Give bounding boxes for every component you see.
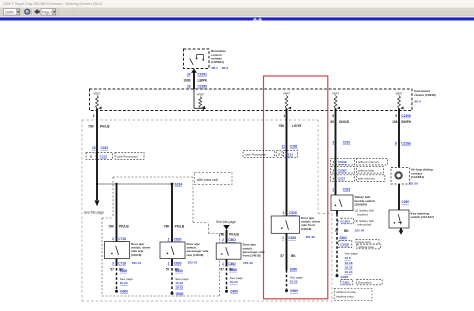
svg-text:G900: G900 [176, 292, 184, 296]
svg-text:2: 2 [168, 237, 170, 241]
svg-text:See page: See page [290, 275, 304, 279]
svg-text:VBAT: VBAT [93, 92, 101, 96]
svg-text:6: 6 [332, 114, 334, 118]
svg-text:1: 1 [282, 236, 284, 240]
svg-text:C820: C820 [174, 261, 182, 265]
svg-text:C218a: C218a [401, 141, 411, 145]
svg-text:S420: S420 [230, 268, 238, 272]
svg-text:C281: C281 [101, 146, 109, 150]
svg-text:780: 780 [108, 225, 114, 229]
svg-text:1: 1 [168, 261, 170, 265]
svg-text:151-40: 151-40 [305, 235, 315, 239]
svg-text:See this page: See this page [84, 211, 104, 215]
svg-text:57: 57 [110, 267, 114, 271]
svg-text:PK/LB: PK/LB [229, 232, 239, 236]
svg-text:without heat: without heat [358, 168, 374, 172]
svg-text:3: 3 [283, 211, 285, 215]
svg-text:C281: C281 [290, 145, 298, 149]
svg-text:unbuckled: unbuckled [357, 223, 371, 227]
svg-text:S300: S300 [120, 269, 128, 273]
svg-text:DN/LB: DN/LB [339, 120, 349, 124]
svg-text:G301: G301 [342, 281, 350, 285]
svg-text:See page: See page [230, 276, 244, 280]
svg-text:151-41: 151-41 [188, 260, 198, 264]
svg-text:G905: G905 [341, 275, 349, 279]
svg-text:BK/PK: BK/PK [401, 120, 412, 124]
svg-text:G900: G900 [290, 289, 298, 293]
svg-text:Late Production: Late Production [117, 155, 139, 159]
svg-text:10-22: 10-22 [120, 281, 128, 285]
svg-text:2: 2 [222, 238, 224, 242]
svg-text:BK: BK [344, 229, 349, 233]
svg-text:without heat: without heat [358, 245, 374, 249]
svg-text:5: 5 [395, 114, 397, 118]
svg-text:S302: S302 [340, 236, 348, 240]
svg-text:VREF: VREF [196, 93, 204, 97]
svg-text:Excursion: Excursion [358, 281, 372, 285]
svg-text:C820: C820 [174, 237, 182, 241]
svg-text:3: 3 [112, 261, 114, 265]
svg-text:10-22: 10-22 [290, 280, 298, 284]
svg-text:C718: C718 [118, 261, 126, 265]
svg-text:C528: C528 [289, 211, 297, 215]
svg-text:See this page: See this page [216, 220, 236, 224]
svg-text:rear (14018): rear (14018) [187, 253, 204, 257]
svg-text:VBAT: VBAT [283, 92, 291, 96]
svg-text:switch (11A127): switch (11A127) [411, 215, 434, 219]
svg-text:85: 85 [330, 120, 334, 124]
svg-text:S300: S300 [175, 269, 183, 273]
svg-text:11: 11 [282, 145, 286, 149]
svg-text:151-41: 151-41 [132, 261, 142, 265]
svg-text:57: 57 [280, 254, 284, 258]
svg-text:C604b: C604b [338, 160, 347, 164]
svg-text:C2206: C2206 [401, 114, 411, 118]
svg-text:with crew cab: with crew cab [197, 178, 218, 182]
svg-text:C528: C528 [288, 236, 296, 240]
svg-text:C323: C323 [343, 187, 351, 191]
svg-text:10-18: 10-18 [345, 261, 353, 265]
svg-text:C2280: C2280 [198, 85, 208, 89]
svg-text:3: 3 [332, 141, 334, 145]
svg-text:C6007: C6007 [338, 168, 347, 172]
svg-text:8: 8 [90, 155, 92, 159]
svg-text:4B-1: 4B-1 [210, 66, 218, 70]
svg-text:with memory: with memory [358, 177, 376, 181]
svg-text:(14B021): (14B021) [211, 60, 224, 64]
svg-text:780: 780 [164, 225, 170, 229]
svg-text:(14A664): (14A664) [411, 175, 424, 179]
svg-text:10-23: 10-23 [175, 286, 183, 290]
svg-text:57: 57 [166, 267, 170, 271]
svg-text:cluster (10849): cluster (10849) [414, 93, 436, 97]
svg-text:PK/LB: PK/LB [119, 225, 129, 229]
svg-text:VBAT: VBAT [395, 92, 403, 96]
svg-text:60-4: 60-4 [415, 100, 421, 104]
svg-text:C527: C527 [338, 177, 346, 181]
svg-text:10: 10 [92, 146, 96, 150]
svg-text:S300: S300 [290, 267, 298, 271]
svg-text:100%: 100% [5, 10, 14, 14]
svg-text:8: 8 [395, 141, 397, 145]
svg-text:C213: C213 [285, 153, 293, 157]
svg-text:G900: G900 [120, 290, 128, 294]
svg-text:756: 756 [279, 124, 285, 128]
svg-text:C802: C802 [228, 238, 236, 242]
svg-text:4B-2: 4B-2 [221, 66, 229, 70]
svg-text:See page: See page [345, 251, 359, 255]
svg-text:See page: See page [120, 277, 134, 281]
svg-text:2: 2 [112, 237, 114, 241]
svg-text:Late Production: Late Production [245, 153, 267, 157]
svg-text:10-22: 10-22 [345, 265, 353, 269]
svg-text:(14018): (14018) [301, 227, 311, 231]
svg-text:(14018): (14018) [131, 253, 141, 257]
svg-text:2: 2 [93, 114, 95, 118]
svg-text:C2041: C2041 [198, 73, 208, 77]
svg-text:2004 F Super Duty 250-550 Excu: 2004 F Super Duty 250-550 Excursion - Wa… [3, 2, 102, 6]
svg-text:57: 57 [220, 268, 224, 272]
svg-text:C303: C303 [342, 220, 350, 224]
svg-text:C718: C718 [118, 237, 126, 241]
svg-text:780: 780 [88, 125, 94, 129]
svg-text:10-5: 10-5 [345, 256, 351, 260]
svg-text:16: 16 [187, 85, 191, 89]
svg-text:LB/PK: LB/PK [198, 78, 208, 82]
svg-text:C802: C802 [228, 262, 236, 266]
svg-text:C260: C260 [401, 200, 409, 204]
svg-text:10-23: 10-23 [230, 280, 238, 284]
svg-text:C303b: C303b [340, 243, 349, 247]
svg-text:keyless entry: keyless entry [336, 295, 354, 299]
svg-text:without remote: without remote [336, 290, 356, 294]
svg-text:PK/LB: PK/LB [100, 125, 110, 129]
svg-text:151-34: 151-34 [355, 229, 365, 233]
svg-text:See page: See page [175, 277, 189, 281]
svg-text:(100924): (100924) [355, 203, 367, 207]
svg-text:108: 108 [392, 120, 398, 124]
svg-text:without memory: without memory [358, 160, 380, 164]
svg-text:C213: C213 [100, 155, 108, 159]
svg-text:VBAT: VBAT [332, 92, 340, 96]
svg-text:2: 2 [332, 187, 334, 191]
svg-text:PK/LB: PK/LB [175, 225, 185, 229]
svg-text:buckled: buckled [357, 212, 368, 216]
svg-text:1: 1 [222, 262, 224, 266]
svg-text:LG/YE: LG/YE [292, 124, 302, 128]
svg-text:S234: S234 [175, 182, 183, 186]
svg-text:lower seat: lower seat [357, 240, 370, 244]
svg-text:front (14018): front (14018) [243, 254, 261, 258]
svg-text:1: 1 [283, 114, 285, 118]
svg-text:Page 2: Page 2 [42, 10, 53, 14]
svg-text:10-22: 10-22 [175, 281, 183, 285]
svg-text:24: 24 [187, 73, 191, 77]
svg-text:10-24: 10-24 [345, 270, 353, 274]
svg-text:BK: BK [291, 254, 296, 258]
svg-text:151-40: 151-40 [243, 261, 253, 265]
svg-text:151-30: 151-30 [408, 182, 418, 186]
svg-text:C210: C210 [343, 141, 351, 145]
svg-text:780: 780 [219, 232, 225, 236]
svg-text:2: 2 [278, 153, 280, 157]
svg-text:1083: 1083 [183, 78, 190, 82]
svg-text:G900: G900 [230, 290, 238, 294]
